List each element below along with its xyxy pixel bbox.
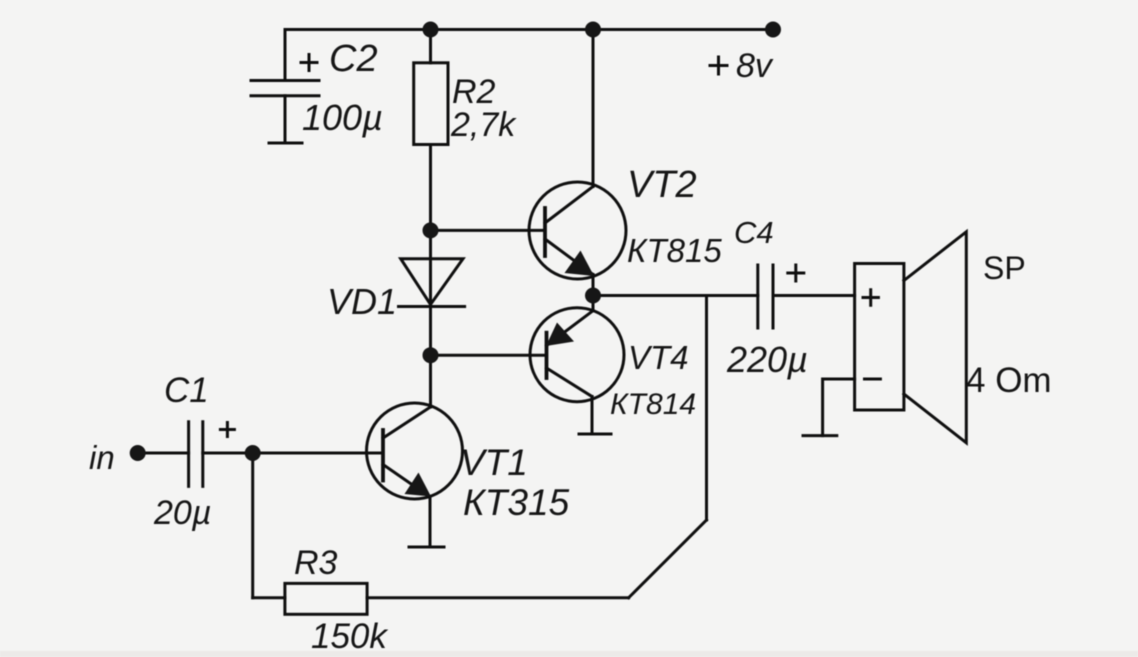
- wire R2 top lead: [429, 30, 432, 63]
- wire R2 bottom to node A: [429, 145, 432, 307]
- ground (C2): [269, 142, 302, 145]
- svg-text:КТ814: КТ814: [610, 388, 696, 421]
- transistor VT2: [529, 182, 626, 279]
- svg-text:4 Om: 4 Om: [966, 361, 1052, 400]
- plus sign C2: [301, 55, 317, 71]
- VT1 emitter arrow: [405, 473, 432, 497]
- wire node C down to R3: [251, 453, 254, 598]
- node A dot: [423, 222, 439, 238]
- svg-text:20µ: 20µ: [153, 494, 211, 532]
- wire node B down to VT1 collector: [429, 355, 432, 407]
- VT4 emitter arrow: [546, 323, 574, 347]
- svg-text:VT1: VT1: [460, 442, 528, 483]
- svg-text:VT2: VT2: [627, 164, 697, 206]
- svg-text:2,7k: 2,7k: [450, 106, 517, 144]
- wire C2 top lead: [284, 30, 287, 81]
- terminal dot +8v: [765, 22, 781, 38]
- wire output node to C4: [593, 294, 758, 297]
- wire node A to VT2 base: [431, 229, 546, 232]
- svg-text:R3: R3: [294, 544, 338, 582]
- wire R3 right to feedback diagonal: [367, 596, 628, 599]
- wire node B to VT4 base: [431, 354, 547, 357]
- wire feedback vertical: [705, 296, 708, 521]
- wire C1 to VT1 base: [203, 452, 383, 455]
- svg-text:VD1: VD1: [327, 281, 397, 322]
- svg-text:100µ: 100µ: [302, 97, 383, 138]
- wire VD1 cathode to node B: [429, 307, 432, 356]
- wire speaker minus to ground: [823, 379, 855, 436]
- svg-text:8v: 8v: [736, 47, 774, 85]
- node dot rail-VT2: [585, 22, 601, 38]
- ground (VT1): [409, 546, 444, 549]
- capacitor C1: [187, 422, 190, 487]
- ground (speaker): [803, 434, 837, 437]
- wire input to C1: [138, 452, 189, 455]
- svg-text:in: in: [89, 439, 115, 476]
- minus sign speaker: [865, 378, 881, 381]
- wire top rail +8v: [285, 28, 773, 31]
- svg-text:C1: C1: [164, 371, 209, 410]
- svg-text:SP: SP: [983, 250, 1026, 286]
- svg-text:220µ: 220µ: [726, 339, 808, 380]
- plus sign speaker: [863, 290, 878, 305]
- svg-text:C4: C4: [734, 215, 774, 250]
- wire feedback diagonal: [629, 520, 707, 598]
- capacitor C2: [251, 79, 319, 82]
- svg-text:КТ315: КТ315: [463, 482, 570, 523]
- capacitor C4: [756, 265, 759, 328]
- svg-text:VT4: VT4: [628, 339, 689, 376]
- svg-text:150k: 150k: [311, 617, 388, 656]
- node B dot: [423, 347, 439, 363]
- resistor R3: [285, 583, 367, 614]
- input terminal dot: [130, 445, 146, 461]
- transistor VT1: [367, 403, 463, 499]
- svg-text:КТ815: КТ815: [627, 232, 722, 269]
- node dot rail-R2: [423, 22, 439, 38]
- transistor VT4: [530, 308, 624, 402]
- VT2 emitter arrow: [565, 251, 595, 277]
- diode VD1: [401, 259, 463, 305]
- ground (VT4): [579, 433, 611, 436]
- speaker SP box: [855, 264, 904, 411]
- node C dot: [245, 445, 261, 461]
- plus sign C4: [788, 265, 804, 281]
- resistor R2: [414, 63, 448, 145]
- plus sign +8v: [710, 57, 727, 74]
- output node dot: [585, 288, 601, 304]
- speaker SP cone: [904, 232, 966, 443]
- wire C4 to speaker: [773, 294, 855, 297]
- svg-text:C2: C2: [329, 38, 378, 80]
- plus sign C1: [220, 423, 234, 437]
